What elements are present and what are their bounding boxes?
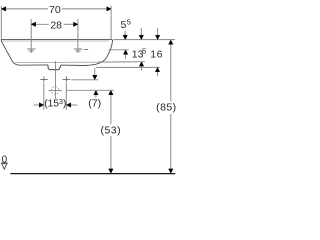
svg-text:5: 5 (142, 47, 146, 56)
svg-text:0: 0 (2, 155, 8, 166)
svg-text:(53): (53) (101, 124, 121, 136)
svg-text:(7): (7) (88, 98, 101, 110)
svg-text:28: 28 (50, 20, 62, 32)
svg-text:(85): (85) (156, 102, 176, 114)
svg-text:(153): (153) (44, 97, 66, 109)
svg-text:16: 16 (150, 49, 163, 61)
svg-text:70: 70 (49, 4, 61, 16)
